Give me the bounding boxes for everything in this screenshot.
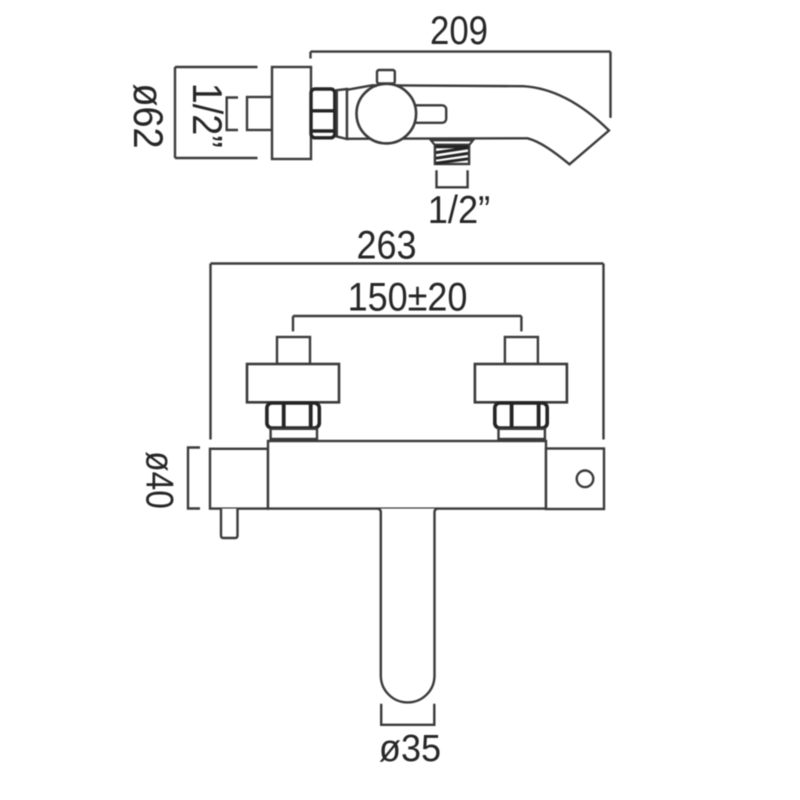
svg-text:150±20: 150±20 bbox=[348, 276, 468, 320]
svg-text:ø40: ø40 bbox=[138, 451, 182, 509]
svg-text:ø62: ø62 bbox=[125, 83, 171, 148]
svg-text:1/2”: 1/2” bbox=[184, 83, 230, 148]
svg-text:ø35: ø35 bbox=[379, 726, 441, 769]
svg-text:1/2”: 1/2” bbox=[428, 188, 490, 231]
svg-text:263: 263 bbox=[356, 224, 416, 268]
svg-text:209: 209 bbox=[430, 8, 488, 53]
